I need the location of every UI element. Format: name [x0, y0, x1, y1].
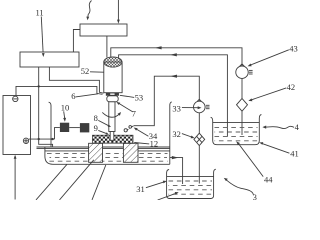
- svg-text:8: 8: [94, 113, 98, 123]
- support block (right): [123, 143, 138, 162]
- work tank wall and bottom: [45, 147, 170, 164]
- svg-text:12: 12: [150, 139, 159, 149]
- settling tank liquid dashes: [169, 180, 213, 182]
- svg-text:4: 4: [295, 122, 300, 132]
- negative terminal: [13, 96, 18, 101]
- pipe pump 43 to filter 42: [241, 78, 243, 98]
- junction dot: [38, 85, 40, 87]
- box 11: [20, 52, 79, 67]
- svg-text:33: 33: [172, 103, 181, 113]
- settling tank 31 walls: [167, 169, 216, 198]
- squiggly reference arrow at top: [88, 1, 92, 18]
- svg-text:52: 52: [81, 66, 90, 76]
- positive wire to work table: [29, 138, 55, 140]
- svg-text:3: 3: [253, 192, 257, 200]
- wire controller box to box 11: [73, 30, 80, 53]
- work tank rim: [37, 146, 170, 148]
- leader from bottom into settling tank: [158, 193, 176, 200]
- svg-text:43: 43: [289, 44, 298, 54]
- coolant pipe 1 (upper, to right column): [111, 48, 242, 66]
- power supply box 1: [3, 96, 31, 155]
- wire box 11 to spindle mount: [49, 67, 103, 93]
- clean tank 4 walls: [211, 115, 262, 145]
- wire from power supply negative terminal to spindle: [16, 86, 103, 96]
- filter 32 (diamond): [194, 133, 205, 145]
- svg-text:31: 31: [136, 184, 145, 194]
- svg-text:7: 7: [132, 108, 136, 118]
- clean tank liquid surface: [213, 122, 260, 124]
- tool tip 9 entering workpiece: [110, 132, 114, 141]
- leader lines to bottom edge labels: [36, 164, 67, 200]
- clean tank liquid dashes: [215, 127, 258, 129]
- svg-text:42: 42: [287, 82, 296, 92]
- wire box 11 down to work table: [38, 67, 40, 139]
- wire from top edge into controller box with arrow: [117, 0, 119, 20]
- svg-text:53: 53: [135, 92, 144, 102]
- workpiece strip 12 (checkered): [93, 135, 134, 143]
- leader to power supply from bottom: [14, 156, 16, 200]
- electrode block 10 (left): [60, 123, 69, 132]
- machine enclosure right wall: [170, 102, 172, 164]
- nozzle supply loop from pump 33: [134, 76, 200, 126]
- coolant pipe 2 (lower, to tank 4): [119, 55, 228, 137]
- wire electrode to junction: [55, 128, 60, 140]
- svg-text:41: 41: [290, 149, 299, 159]
- electrode block 10 (right): [80, 123, 89, 132]
- tool shaft 7: [109, 102, 115, 132]
- svg-text:10: 10: [61, 102, 70, 112]
- controller box (top): [80, 24, 127, 36]
- wire between electrode blocks: [69, 127, 80, 129]
- pump 33: [194, 101, 206, 113]
- svg-text:44: 44: [264, 175, 273, 185]
- pipe pump 33 to filter 32: [198, 113, 200, 133]
- pipe filter 32 into settling tank: [198, 146, 200, 184]
- work tank liquid dashes: [47, 153, 168, 155]
- rotation direction arc: [102, 112, 120, 117]
- work tank liquid surface: [45, 150, 170, 152]
- svg-text:32: 32: [172, 129, 181, 139]
- work tank drain to settling tank: [170, 158, 183, 184]
- svg-text:6: 6: [71, 91, 75, 101]
- collet mount plate 6: [106, 93, 118, 95]
- machine enclosure left wall: [49, 102, 51, 147]
- positive terminal: [23, 138, 28, 143]
- collet nut 53: [107, 96, 118, 102]
- svg-text:11: 11: [36, 8, 44, 18]
- pump 43: [236, 66, 248, 78]
- coolant nozzle 34: [129, 126, 133, 129]
- spindle motor hatched top ellipse: [104, 57, 122, 67]
- settling tank liquid surface: [167, 176, 214, 178]
- support block (left): [89, 143, 103, 162]
- wire controller box to spindle motor: [106, 36, 108, 58]
- filter 42 (diamond): [237, 98, 248, 111]
- pipe filter 42 into clean tank 4: [241, 111, 243, 135]
- spindle motor 52 cylinder body: [104, 62, 122, 93]
- svg-text:9: 9: [94, 123, 98, 133]
